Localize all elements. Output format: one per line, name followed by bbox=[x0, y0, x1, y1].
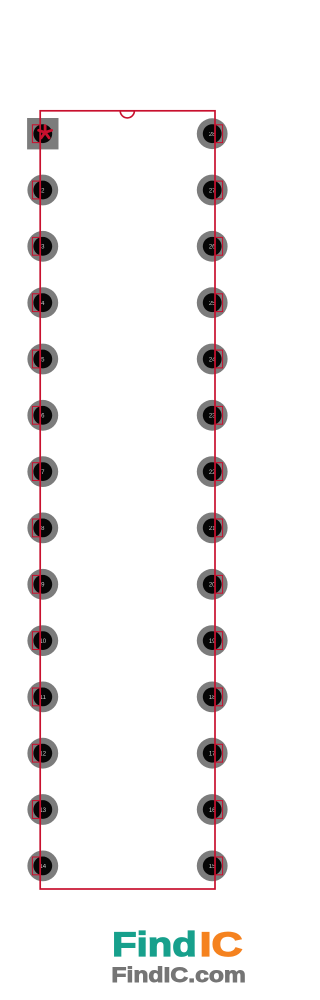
svg-text:IC: IC bbox=[200, 926, 243, 964]
svg-text:Find: Find bbox=[112, 926, 197, 964]
svg-text:FindIC.com: FindIC.com bbox=[111, 963, 246, 987]
